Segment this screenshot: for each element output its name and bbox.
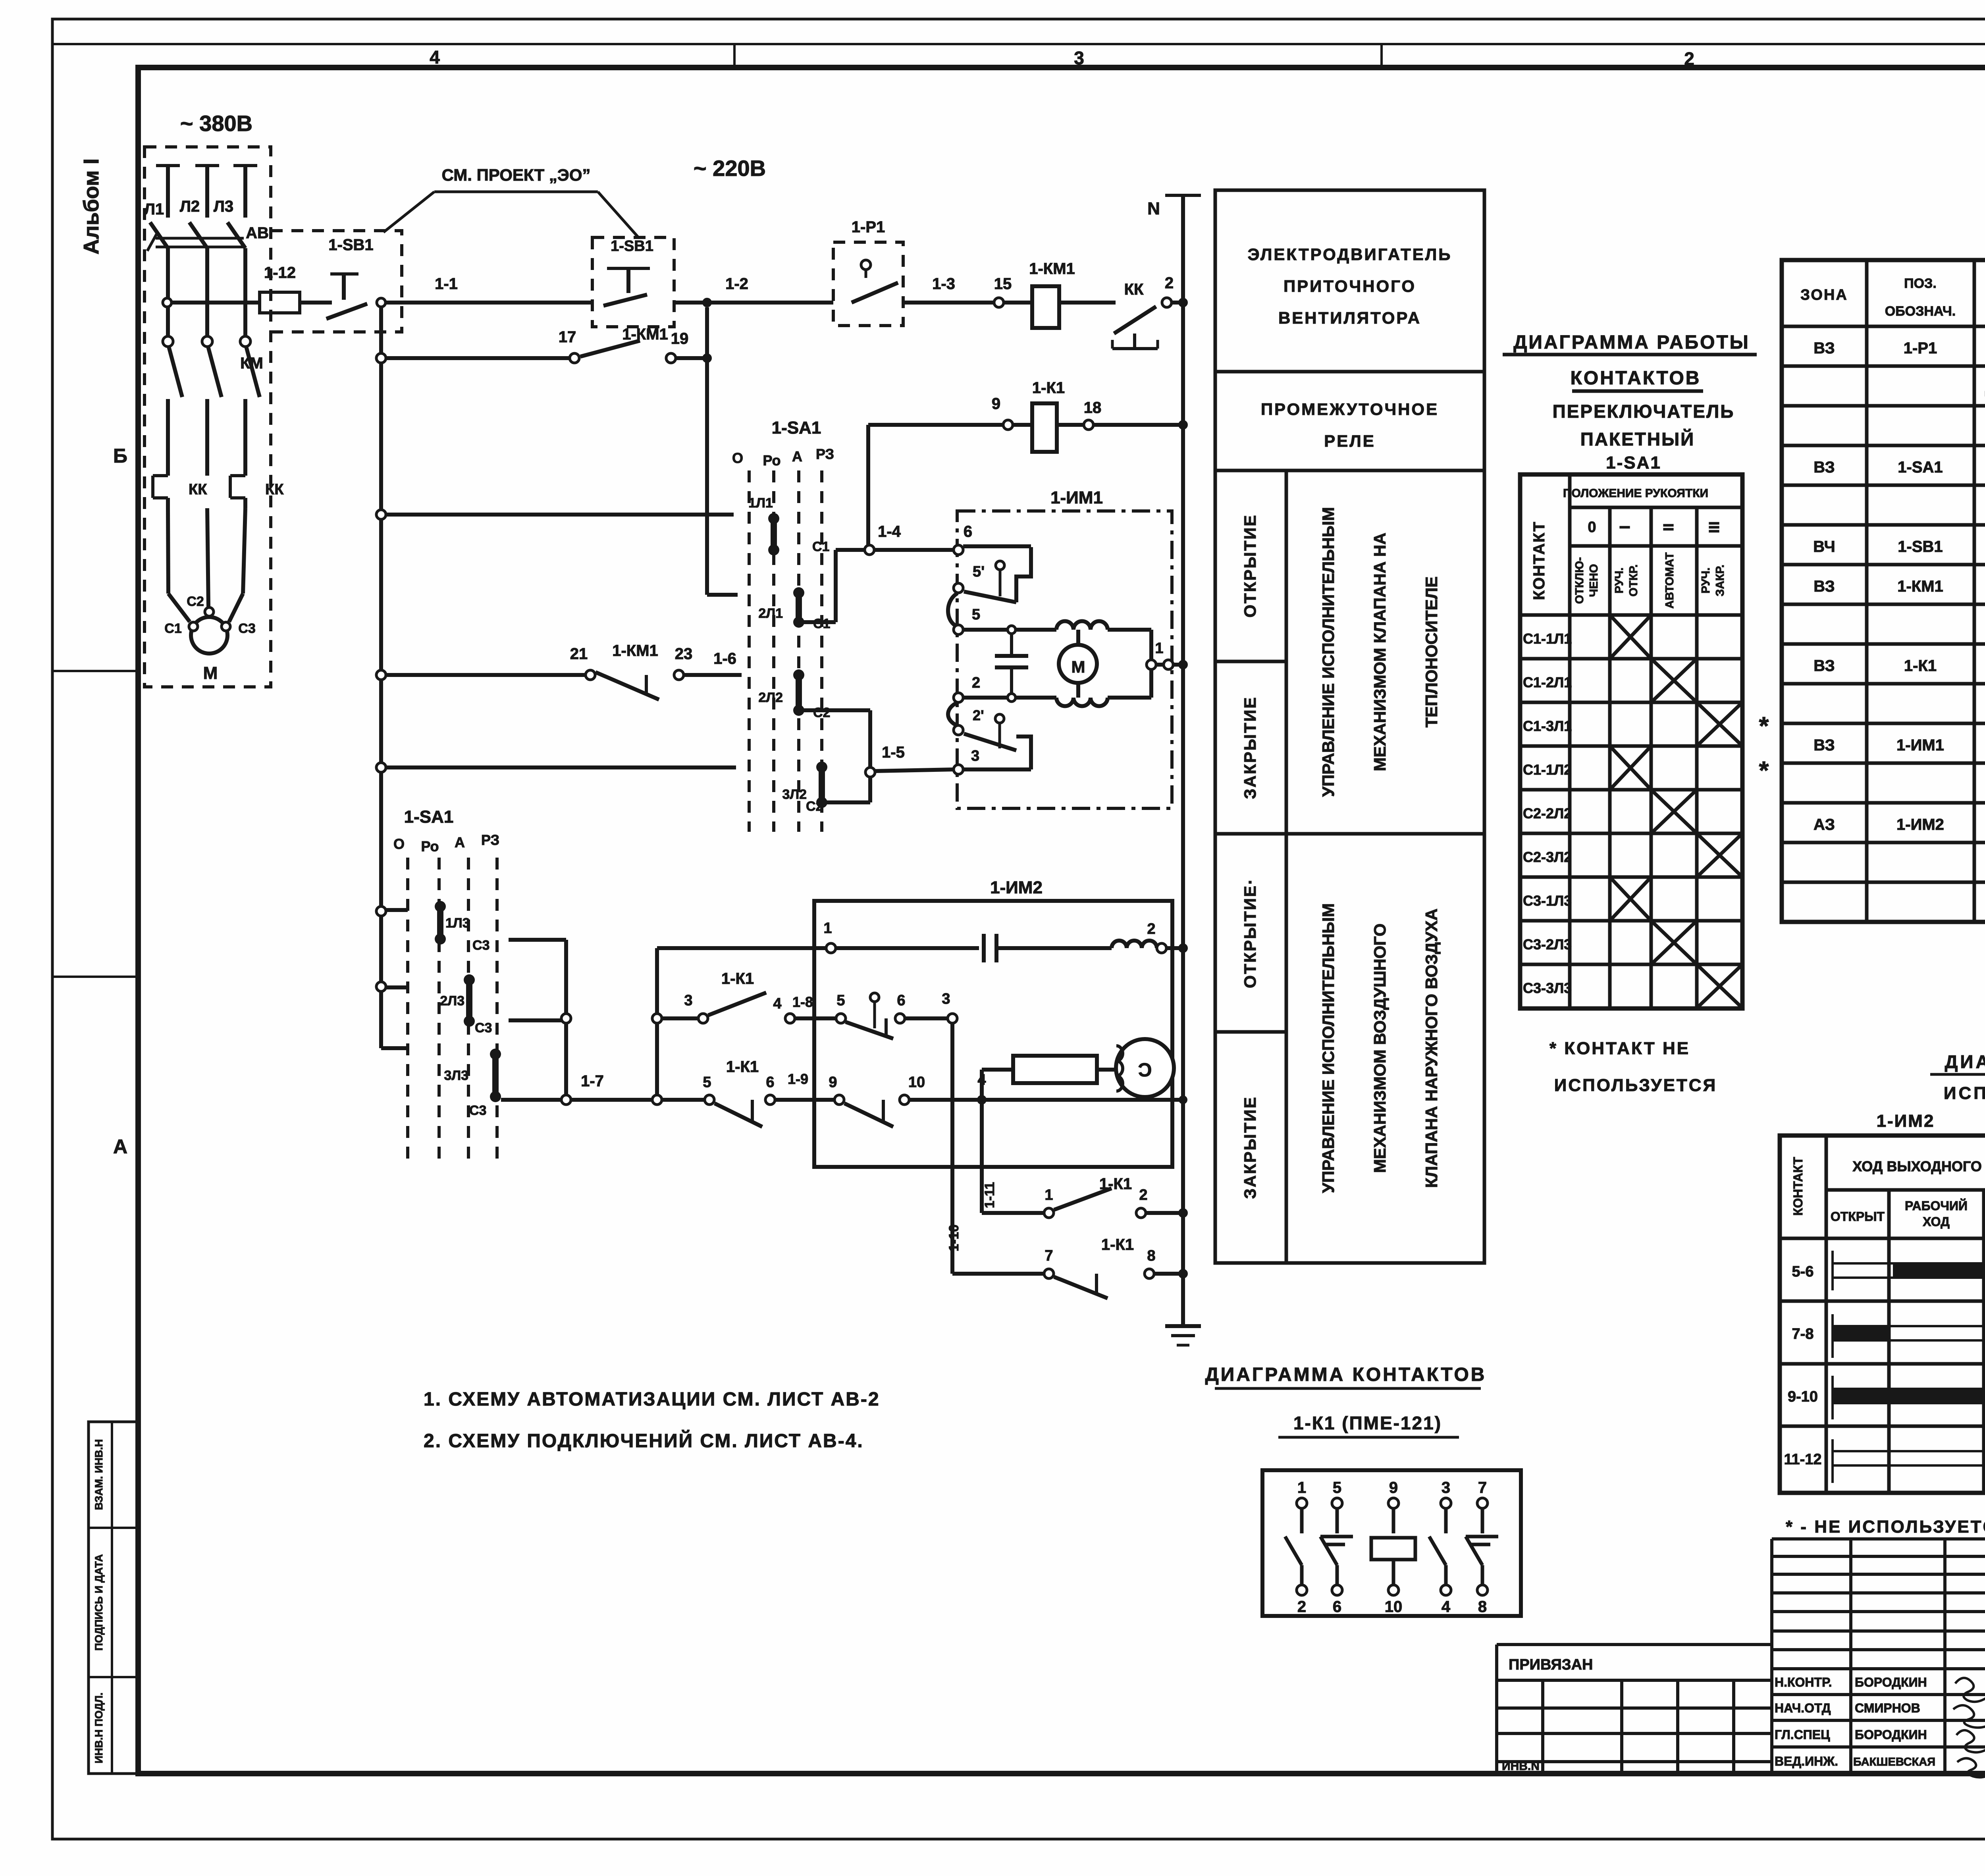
- svg-text:ХОД: ХОД: [1923, 1215, 1950, 1229]
- svg-text:1-3: 1-3: [932, 275, 955, 293]
- svg-text:1-К1: 1-К1: [1032, 379, 1065, 397]
- svg-text:5: 5: [836, 992, 845, 1009]
- svg-text:Л3: Л3: [214, 198, 233, 215]
- svg-text:7: 7: [1045, 1247, 1053, 1264]
- svg-text:1-Р1: 1-Р1: [852, 218, 885, 236]
- svg-text:1-SВ1: 1-SВ1: [611, 238, 653, 255]
- svg-text:ГЛ.СПЕЦ: ГЛ.СПЕЦ: [1775, 1728, 1830, 1742]
- svg-text:ОТКРЫТИЕ·: ОТКРЫТИЕ·: [1241, 878, 1259, 988]
- svg-text:ЗАКРЫТИЕ: ЗАКРЫТИЕ: [1241, 696, 1259, 799]
- svg-text:2. СХЕМУ ПОДКЛЮЧЕНИЙ СМ. ЛИСТ: 2. СХЕМУ ПОДКЛЮЧЕНИЙ СМ. ЛИСТ АВ-4.: [424, 1430, 864, 1452]
- svg-text:1-6: 1-6: [713, 650, 736, 667]
- svg-text:3: 3: [1074, 48, 1084, 68]
- svg-text:ПОДПИСЬ И ДАТА: ПОДПИСЬ И ДАТА: [93, 1554, 105, 1650]
- svg-text:1-9: 1-9: [788, 1071, 808, 1087]
- svg-text:23: 23: [675, 645, 693, 663]
- svg-text:С3: С3: [472, 938, 490, 953]
- svg-text:6: 6: [766, 1074, 774, 1091]
- svg-text:1-КМ1: 1-КМ1: [622, 326, 668, 343]
- svg-text:~ 220В: ~ 220В: [694, 156, 766, 181]
- svg-text:1-К1: 1-К1: [721, 970, 754, 987]
- svg-text:МЕХАНИЗМОМ ВОЗДУШНОГО: МЕХАНИЗМОМ ВОЗДУШНОГО: [1370, 924, 1389, 1173]
- svg-text:С1: С1: [164, 621, 181, 636]
- svg-text:11-12: 11-12: [1784, 1451, 1821, 1468]
- svg-text:ВЧ: ВЧ: [1813, 538, 1835, 555]
- svg-text:С3-2Л3: С3-2Л3: [1523, 936, 1572, 952]
- svg-text:БОРОДКИН: БОРОДКИН: [1855, 1728, 1927, 1742]
- svg-text:1Л1: 1Л1: [748, 496, 773, 511]
- svg-text:3Л2: 3Л2: [782, 787, 807, 802]
- svg-text:ДИАГРАММА РАБОТЫ: ДИАГРАММА РАБОТЫ: [1513, 332, 1750, 353]
- svg-text:1-4: 1-4: [878, 523, 901, 540]
- svg-text:Ро: Ро: [421, 838, 439, 854]
- svg-text:2Л2: 2Л2: [758, 690, 783, 705]
- svg-text:4: 4: [773, 995, 781, 1012]
- svg-text:ВЗ: ВЗ: [1813, 459, 1835, 476]
- svg-text:ПРИТОЧНОГО: ПРИТОЧНОГО: [1284, 277, 1416, 295]
- svg-text:~ 380В: ~ 380В: [180, 111, 252, 136]
- svg-text:2: 2: [1684, 48, 1694, 69]
- svg-text:ИСПОЛНИТЕЛЬНЫХ МЕХАНИЗМОВ: ИСПОЛНИТЕЛЬНЫХ МЕХАНИЗМОВ: [1944, 1084, 1985, 1103]
- svg-text:ИНВ.N: ИНВ.N: [1502, 1760, 1540, 1773]
- svg-text:7-8: 7-8: [1792, 1326, 1814, 1342]
- svg-text:С: С: [1138, 1059, 1152, 1080]
- svg-text:КК: КК: [1124, 281, 1144, 298]
- svg-text:1-SА1: 1-SА1: [772, 418, 821, 438]
- svg-text:М: М: [203, 663, 218, 683]
- svg-text:5-6: 5-6: [1792, 1263, 1814, 1280]
- svg-text:ПРИВЯЗАН: ПРИВЯЗАН: [1509, 1656, 1593, 1673]
- svg-text:АВТОМАТ: АВТОМАТ: [1663, 552, 1676, 609]
- svg-text:С2-3Л2: С2-3Л2: [1523, 849, 1572, 865]
- svg-text:1-5: 1-5: [882, 744, 905, 761]
- svg-text:ВЗАМ. ИНВ.Н: ВЗАМ. ИНВ.Н: [93, 1439, 105, 1510]
- svg-text:КК: КК: [265, 481, 284, 498]
- svg-text:С1: С1: [813, 616, 830, 631]
- svg-text:9: 9: [829, 1074, 837, 1091]
- svg-text:1-КМ1: 1-КМ1: [1029, 260, 1075, 278]
- svg-text:ХОД ВЫХОДНОГО ВАЛА: ХОД ВЫХОДНОГО ВАЛА: [1852, 1158, 1985, 1174]
- svg-text:9: 9: [992, 395, 1000, 413]
- svg-text:РУЧ.: РУЧ.: [1700, 567, 1712, 593]
- svg-text:1-SВ1: 1-SВ1: [1898, 538, 1943, 555]
- svg-text:3Л3: 3Л3: [444, 1068, 468, 1083]
- svg-text:РЗ: РЗ: [816, 446, 834, 462]
- svg-text:18: 18: [1084, 399, 1102, 416]
- svg-text:ВЗ: ВЗ: [1813, 657, 1835, 675]
- svg-text:РЗ: РЗ: [481, 832, 499, 848]
- svg-text:1: 1: [823, 920, 832, 937]
- svg-text:А: А: [113, 1136, 127, 1158]
- svg-text:1-К1 (ПМЕ-121): 1-К1 (ПМЕ-121): [1293, 1413, 1442, 1433]
- svg-text:2': 2': [973, 707, 984, 723]
- svg-text:1-12: 1-12: [264, 264, 296, 281]
- svg-text:С1: С1: [812, 539, 829, 554]
- svg-text:1-К1: 1-К1: [1099, 1175, 1132, 1193]
- svg-text:1: 1: [1155, 640, 1163, 657]
- svg-text:ТЕПЛОНОСИТЕЛЕ: ТЕПЛОНОСИТЕЛЕ: [1422, 576, 1441, 728]
- svg-text:О: О: [393, 836, 405, 852]
- svg-text:ОТКР.: ОТКР.: [1627, 564, 1640, 596]
- svg-text:ЭЛЕКТРОДВИГАТЕЛЬ: ЭЛЕКТРОДВИГАТЕЛЬ: [1248, 245, 1452, 264]
- svg-text:2: 2: [1139, 1187, 1147, 1203]
- svg-text:1-КМ1: 1-КМ1: [612, 642, 658, 659]
- svg-text:КМ: КМ: [240, 355, 263, 372]
- svg-text:4: 4: [1442, 1598, 1451, 1616]
- svg-text:ВЗ: ВЗ: [1813, 578, 1835, 595]
- svg-text:1-ИМ2: 1-ИМ2: [1896, 816, 1944, 833]
- svg-text:БАКШЕВСКАЯ: БАКШЕВСКАЯ: [1853, 1756, 1935, 1768]
- svg-text:1-К1: 1-К1: [1904, 657, 1937, 675]
- svg-text:М: М: [1072, 657, 1085, 676]
- svg-text:С3-1Л3: С3-1Л3: [1523, 893, 1572, 909]
- svg-text:5: 5: [972, 606, 980, 623]
- svg-text:ОТКЛЮ-: ОТКЛЮ-: [1573, 557, 1586, 604]
- svg-text:ДИАГРАММА КОНТАКТОВ: ДИАГРАММА КОНТАКТОВ: [1205, 1364, 1487, 1385]
- svg-text:ИНВ.Н ПОДЛ.: ИНВ.Н ПОДЛ.: [93, 1693, 105, 1764]
- svg-text:2Л1: 2Л1: [758, 606, 783, 621]
- svg-text:0: 0: [1588, 519, 1596, 536]
- svg-text:1. СХЕМУ АВТОМАТИЗАЦИИ СМ. ЛИ: 1. СХЕМУ АВТОМАТИЗАЦИИ СМ. ЛИСТ АВ-2: [424, 1389, 880, 1410]
- svg-text:С1-2Л1: С1-2Л1: [1523, 674, 1572, 690]
- svg-text:7: 7: [1478, 1479, 1487, 1496]
- svg-text:9: 9: [1389, 1479, 1398, 1496]
- svg-text:I: I: [1617, 525, 1633, 529]
- svg-text:5: 5: [1333, 1479, 1341, 1496]
- svg-text:1-К1: 1-К1: [1101, 1236, 1134, 1253]
- svg-text:4: 4: [977, 1072, 986, 1088]
- svg-text:*: *: [1759, 711, 1769, 740]
- svg-text:Альбом I: Альбом I: [79, 158, 103, 255]
- svg-text:КОНТАКТОВ: КОНТАКТОВ: [1571, 368, 1701, 389]
- svg-text:НАЧ.ОТД: НАЧ.ОТД: [1775, 1701, 1831, 1715]
- svg-text:2: 2: [1165, 274, 1174, 292]
- svg-text:6: 6: [897, 992, 905, 1009]
- svg-text:ВЕНТИЛЯТОРА: ВЕНТИЛЯТОРА: [1278, 308, 1421, 327]
- svg-text:10: 10: [1385, 1598, 1403, 1616]
- svg-text:3: 3: [971, 748, 979, 764]
- svg-text:С2: С2: [813, 705, 830, 720]
- svg-text:1-ИМ1: 1-ИМ1: [1896, 737, 1944, 754]
- svg-text:ЧЕНО: ЧЕНО: [1588, 564, 1600, 597]
- svg-text:*: *: [1759, 756, 1769, 785]
- svg-text:С3-3Л3: С3-3Л3: [1523, 980, 1572, 996]
- svg-text:ЗОНА: ЗОНА: [1800, 287, 1848, 303]
- svg-text:3: 3: [684, 992, 692, 1009]
- svg-text:С2: С2: [806, 799, 823, 814]
- svg-text:3: 3: [1442, 1479, 1450, 1496]
- svg-text:АЗ: АЗ: [1813, 816, 1835, 833]
- svg-text:РЕЛЕ: РЕЛЕ: [1324, 432, 1376, 450]
- svg-text:1-К1: 1-К1: [726, 1058, 759, 1076]
- svg-text:21: 21: [570, 645, 588, 663]
- svg-text:1-ИМ2: 1-ИМ2: [990, 878, 1043, 897]
- svg-text:ДИАГРАММЫ РАБОТЫ КОНТАКТОВ: ДИАГРАММЫ РАБОТЫ КОНТАКТОВ: [1945, 1051, 1985, 1072]
- svg-text:С1-1Л2: С1-1Л2: [1523, 762, 1572, 778]
- svg-text:1-ИМ2: 1-ИМ2: [1877, 1111, 1935, 1131]
- svg-text:С3: С3: [475, 1020, 492, 1035]
- svg-text:С3: С3: [469, 1103, 486, 1118]
- svg-text:ОТКРЫТ: ОТКРЫТ: [1831, 1209, 1885, 1224]
- svg-text:6: 6: [964, 523, 972, 540]
- svg-text:* КОНТАКТ НЕ: * КОНТАКТ НЕ: [1549, 1039, 1690, 1058]
- svg-text:А: А: [455, 834, 465, 850]
- svg-text:С2: С2: [187, 594, 204, 609]
- svg-text:БОРОДКИН: БОРОДКИН: [1855, 1675, 1927, 1689]
- svg-text:ПРОМЕЖУТОЧНОЕ: ПРОМЕЖУТОЧНОЕ: [1261, 400, 1439, 418]
- svg-text:1-Р1: 1-Р1: [1904, 339, 1937, 357]
- svg-text:1-SА1: 1-SА1: [404, 807, 454, 827]
- svg-text:Н.КОНТР.: Н.КОНТР.: [1775, 1675, 1832, 1689]
- svg-text:ПЕРЕКЛЮЧАТЕЛЬ: ПЕРЕКЛЮЧАТЕЛЬ: [1553, 401, 1735, 422]
- svg-text:10: 10: [908, 1074, 925, 1091]
- svg-text:5: 5: [703, 1074, 711, 1091]
- svg-text:РАБОЧИЙ: РАБОЧИЙ: [1905, 1199, 1968, 1213]
- svg-text:Л1: Л1: [144, 201, 164, 218]
- svg-text:1-8: 1-8: [792, 994, 813, 1010]
- svg-text:9-10: 9-10: [1788, 1388, 1818, 1405]
- svg-text:КОНТАКТ: КОНТАКТ: [1791, 1157, 1805, 1216]
- svg-text:Б: Б: [113, 445, 127, 467]
- svg-text:ВЗ: ВЗ: [1813, 339, 1835, 357]
- svg-text:ОБОЗНАЧ.: ОБОЗНАЧ.: [1885, 304, 1956, 319]
- svg-text:КК: КК: [189, 481, 207, 498]
- svg-text:КЛАПАНА НАРУЖНОГО ВОЗДУХА: КЛАПАНА НАРУЖНОГО ВОЗДУХА: [1422, 908, 1441, 1188]
- svg-text:СМ. ПРОЕКТ „ЭО”: СМ. ПРОЕКТ „ЭО”: [442, 166, 591, 184]
- svg-text:2Л3: 2Л3: [440, 993, 464, 1008]
- svg-text:С2-2Л2: С2-2Л2: [1523, 805, 1572, 821]
- svg-text:ПОЛОЖЕНИЕ РУКОЯТКИ: ПОЛОЖЕНИЕ РУКОЯТКИ: [1563, 487, 1708, 500]
- svg-text:А: А: [792, 448, 802, 465]
- svg-text:2: 2: [1297, 1598, 1306, 1616]
- svg-text:РУЧ.: РУЧ.: [1613, 567, 1626, 593]
- svg-text:ПАКЕТНЫЙ: ПАКЕТНЫЙ: [1580, 429, 1695, 449]
- svg-text:* - НЕ ИСПОЛЬЗУЕТСЯ: * - НЕ ИСПОЛЬЗУЕТСЯ: [1786, 1517, 1985, 1537]
- svg-text:1-SА1: 1-SА1: [1606, 453, 1661, 472]
- svg-text:Ро: Ро: [763, 452, 781, 469]
- svg-text:8: 8: [1147, 1247, 1155, 1264]
- svg-text:ЗАКР.: ЗАКР.: [1714, 565, 1727, 596]
- svg-text:3: 3: [942, 991, 950, 1007]
- svg-text:ЗАКРЫТИЕ: ЗАКРЫТИЕ: [1241, 1096, 1259, 1199]
- svg-text:МЕХАНИЗМОМ КЛАПАНА НА: МЕХАНИЗМОМ КЛАПАНА НА: [1370, 533, 1389, 771]
- svg-text:УПРАВЛЕНИЕ ИСПОЛНИТЕЛЬНЫМ: УПРАВЛЕНИЕ ИСПОЛНИТЕЛЬНЫМ: [1319, 903, 1337, 1193]
- svg-text:1-11: 1-11: [982, 1182, 997, 1208]
- svg-text:АВ: АВ: [246, 224, 269, 242]
- svg-text:ИСПОЛЬЗУЕТСЯ: ИСПОЛЬЗУЕТСЯ: [1554, 1076, 1717, 1095]
- svg-text:5': 5': [973, 563, 985, 580]
- svg-text:4: 4: [430, 47, 440, 67]
- svg-text:1-7: 1-7: [581, 1072, 604, 1090]
- svg-text:1-SА1: 1-SА1: [1898, 459, 1943, 476]
- svg-text:С3: С3: [238, 621, 255, 636]
- svg-text:С1-3Л1: С1-3Л1: [1523, 718, 1572, 734]
- svg-text:8: 8: [1478, 1598, 1487, 1616]
- svg-text:ПОЗ.: ПОЗ.: [1904, 276, 1937, 291]
- svg-text:О: О: [732, 450, 743, 466]
- svg-text:III: III: [1706, 521, 1722, 533]
- svg-text:Л2: Л2: [180, 198, 200, 215]
- svg-text:1-КМ1: 1-КМ1: [1897, 578, 1943, 595]
- svg-text:ВЕД.ИНЖ.: ВЕД.ИНЖ.: [1775, 1754, 1838, 1768]
- svg-text:1Л3: 1Л3: [445, 916, 470, 931]
- svg-text:6: 6: [1333, 1598, 1341, 1616]
- svg-text:II: II: [1660, 523, 1677, 531]
- svg-text:1: 1: [1297, 1479, 1306, 1496]
- svg-text:1-ИМ1: 1-ИМ1: [1050, 488, 1103, 507]
- svg-text:17: 17: [559, 328, 576, 346]
- svg-text:ОТКРЫТИЕ: ОТКРЫТИЕ: [1241, 514, 1259, 618]
- svg-text:15: 15: [994, 275, 1012, 293]
- svg-text:ВЗ: ВЗ: [1813, 737, 1835, 754]
- svg-text:2: 2: [972, 675, 980, 691]
- svg-text:N: N: [1147, 199, 1160, 218]
- svg-text:1-SВ1: 1-SВ1: [328, 236, 373, 254]
- svg-text:1: 1: [1045, 1187, 1053, 1203]
- svg-text:УПРАВЛЕНИЕ ИСПОЛНИТЕЛЬНЫМ: УПРАВЛЕНИЕ ИСПОЛНИТЕЛЬНЫМ: [1319, 507, 1337, 797]
- svg-text:1-1: 1-1: [435, 275, 458, 293]
- svg-text:1-2: 1-2: [725, 275, 748, 293]
- svg-text:1-10: 1-10: [946, 1224, 962, 1251]
- svg-text:КОНТАКТ: КОНТАКТ: [1530, 521, 1548, 600]
- svg-text:19: 19: [671, 330, 689, 347]
- svg-text:СМИРНОВ: СМИРНОВ: [1855, 1701, 1920, 1715]
- svg-text:2: 2: [1147, 921, 1155, 937]
- svg-text:С1-1Л1: С1-1Л1: [1523, 630, 1572, 647]
